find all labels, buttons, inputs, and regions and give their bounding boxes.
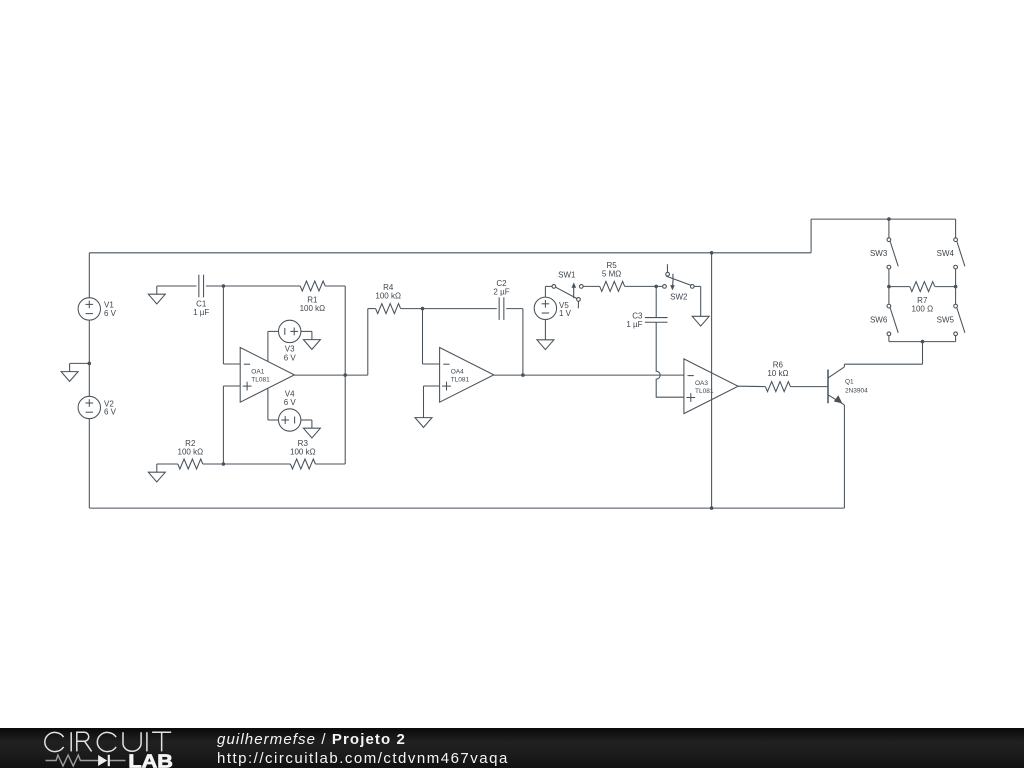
svg-text:100 kΩ: 100 kΩ — [290, 448, 316, 457]
svg-text:SW5: SW5 — [937, 316, 955, 325]
op-amp OA4 — [440, 348, 494, 403]
svg-text:OA3: OA3 — [695, 380, 708, 387]
svg-text:2N3904: 2N3904 — [845, 387, 868, 394]
op-amp OA3 — [684, 359, 738, 414]
wire R7 right to SW5 — [955, 287, 957, 305]
logo resistor-diode icon — [46, 755, 126, 766]
resistor R5 — [600, 281, 625, 291]
node OA1 output — [343, 373, 347, 377]
resistor R4 — [368, 308, 376, 310]
svg-text:SW4: SW4 — [937, 249, 955, 258]
wire Q1 emitter to bottom rail — [843, 405, 845, 508]
svg-text:6 V: 6 V — [284, 353, 297, 362]
svg-text:V3: V3 — [285, 345, 295, 354]
node R4/C2/OA4 minus — [421, 307, 425, 311]
ground SW2 — [700, 308, 702, 316]
svg-text:100 kΩ: 100 kΩ — [375, 292, 401, 301]
wire bottom rail — [89, 507, 844, 509]
wire bridge bottom to Q1 collector — [922, 342, 924, 365]
op-amp OA1 — [240, 348, 294, 403]
svg-text:SW3: SW3 — [870, 249, 888, 258]
svg-text:1 V: 1 V — [559, 309, 572, 318]
wire SW1 to R5 — [583, 285, 600, 287]
switch SW6 — [887, 304, 891, 308]
wire to SW3 — [888, 219, 890, 238]
wire to mid-left ground — [70, 362, 90, 364]
svg-text:SW6: SW6 — [870, 316, 888, 325]
ground V5 — [544, 332, 546, 340]
wire C3 down with hop to OA3 plus input — [656, 322, 684, 397]
capacitor C2 — [498, 297, 500, 320]
wire OA4 plus input to ground — [424, 385, 440, 387]
node bridge top — [887, 217, 891, 221]
wire ground to C1 — [157, 285, 197, 287]
svg-text:TL081: TL081 — [251, 377, 270, 384]
switch SW3 — [887, 238, 891, 242]
wire OA1 V- pin to V4 — [267, 388, 269, 420]
transistor Q1 — [827, 370, 829, 404]
ground V4 — [311, 420, 313, 428]
svg-text:TL081: TL081 — [695, 388, 714, 395]
svg-text:10 kΩ: 10 kΩ — [767, 369, 788, 378]
svg-text:OA4: OA4 — [451, 368, 464, 375]
wire bridge bottom rail — [888, 336, 890, 342]
ground V3 — [311, 331, 313, 339]
resistor R2 — [157, 463, 178, 465]
svg-text:1 µF: 1 µF — [626, 320, 642, 329]
svg-text:TL081: TL081 — [451, 377, 470, 384]
ground mid-left — [69, 363, 71, 371]
switch SW5 — [954, 304, 958, 308]
resistor R1 — [223, 285, 300, 287]
svg-text:SW1: SW1 — [558, 271, 576, 280]
wire V5 bottom to ground — [544, 320, 546, 332]
wire node to C2 — [423, 308, 497, 310]
wire left rail top (to V1) — [88, 253, 90, 298]
wire mid rail vertical — [711, 253, 713, 508]
wire OA3 output to R6 — [738, 385, 765, 387]
wire R7 left to SW6 — [888, 287, 890, 305]
svg-text:6 V: 6 V — [284, 398, 297, 407]
voltage source V5 — [534, 297, 556, 319]
resistor R6 — [765, 382, 790, 392]
wire V1 to V2 — [88, 320, 90, 396]
wire node to OA1 minus input — [222, 286, 224, 364]
wire SW4 to R7 row — [955, 269, 957, 287]
svg-text:2 µF: 2 µF — [493, 288, 509, 297]
resistor R3 — [223, 463, 290, 465]
ground R2 left — [156, 464, 158, 472]
svg-text:SW2: SW2 — [670, 293, 688, 302]
wire V5 top to SW1 — [544, 286, 546, 297]
svg-text:LAB: LAB — [128, 751, 173, 769]
wire V4 to ground — [301, 419, 312, 421]
node mid rail bottom — [710, 506, 714, 510]
node R2/R3 — [222, 462, 226, 466]
svg-text:6 V: 6 V — [104, 309, 117, 318]
wire V3 to ground — [301, 330, 312, 332]
voltage source V2 — [78, 396, 100, 418]
wire R1 right feedback down — [344, 286, 346, 464]
wire node down to OA4 minus input — [422, 309, 424, 364]
resistor R7 — [889, 286, 910, 288]
voltage source V1 — [78, 298, 100, 320]
svg-text:1 µF: 1 µF — [193, 308, 209, 317]
switch SW4 — [954, 238, 958, 242]
svg-text:5 MΩ: 5 MΩ — [602, 270, 621, 279]
wire V2 to bottom rail — [88, 419, 90, 509]
wire top rail — [89, 252, 811, 254]
wire C1 to node — [206, 285, 224, 287]
wire OA1 V+ pin to V3 — [267, 331, 269, 361]
wire C2 right down to output — [506, 308, 523, 310]
ground C1 left — [156, 286, 158, 294]
capacitor C3 — [645, 317, 668, 319]
node C1/R1/OA1 minus — [222, 284, 226, 288]
wire to SW4 — [955, 219, 957, 238]
wire OA1 plus input down to R2/R3 node — [222, 386, 224, 464]
footer credit text — [217, 731, 509, 768]
svg-text:100 Ω: 100 Ω — [912, 305, 934, 314]
node bridge bottom — [921, 340, 925, 344]
wire up to R4 row — [367, 309, 369, 376]
node R7 left — [887, 285, 891, 289]
voltage source V3 — [279, 320, 301, 342]
node C2/OA4 output — [521, 373, 525, 377]
wire top rail step up — [810, 219, 812, 253]
svg-text:100 kΩ: 100 kΩ — [300, 304, 326, 313]
node R5/SW2/C3 — [654, 285, 658, 289]
voltage source V4 — [279, 409, 301, 431]
CircuitLab logo — [0, 728, 230, 769]
node mid rail top — [710, 251, 714, 255]
svg-text:OA1: OA1 — [251, 368, 264, 375]
switch SW1 — [552, 285, 556, 289]
switch SW2 — [663, 285, 667, 289]
svg-text:100 kΩ: 100 kΩ — [178, 448, 204, 457]
svg-text:6 V: 6 V — [104, 407, 117, 416]
wire OA4 output to OA3 minus input — [494, 374, 684, 376]
node R7 right — [954, 285, 958, 289]
capacitor C1 — [198, 275, 200, 298]
node between V1 and V2 — [88, 362, 92, 366]
ground OA4 plus — [423, 409, 425, 417]
wire SW3 to R7 row — [888, 269, 890, 287]
svg-text:Q1: Q1 — [845, 378, 854, 385]
wire OA1 output — [294, 374, 367, 376]
wire SW2 right to ground — [694, 285, 701, 287]
wire node down to C3 — [655, 286, 657, 317]
